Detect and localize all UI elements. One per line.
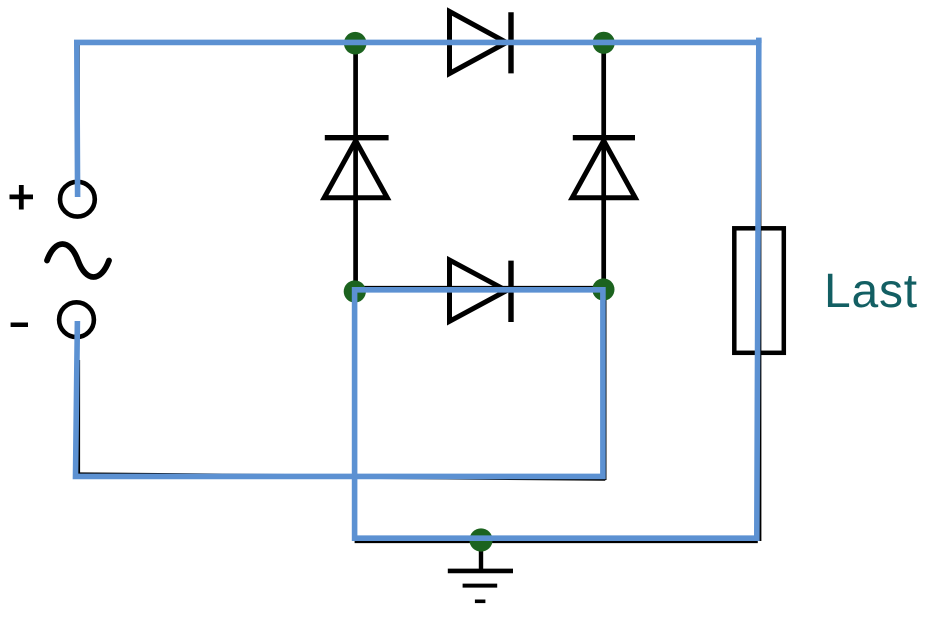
AC source: sine symbol xyxy=(47,244,109,277)
node B (top right junction) xyxy=(593,32,615,54)
node: ground junction xyxy=(469,528,492,551)
label: minus sign xyxy=(11,323,28,328)
wire: node C down to bottom rail xyxy=(353,291,357,541)
load resistor (Last) xyxy=(734,228,784,352)
wire: node C to node D (through bottom diode) xyxy=(354,286,604,290)
diode D4 (bottom, anode left) xyxy=(450,260,512,322)
node C (bottom left junction) xyxy=(344,280,366,302)
ground symbol xyxy=(448,540,513,601)
AC source: + terminal circle xyxy=(60,182,95,217)
wire: - terminal down xyxy=(77,360,80,477)
diode D2 (left vertical, cathode up) xyxy=(324,138,388,198)
wire: bottom rail (load bottom to node C column) xyxy=(355,539,758,543)
wire: blue stub at top-right corner xyxy=(756,38,762,43)
AC source: - terminal circle xyxy=(59,302,94,337)
diode D3 (right vertical, cathode up) xyxy=(572,138,635,198)
wire: right column through load (top rail to bottom rail) xyxy=(757,42,761,541)
wire: node A down through diode D2 to node C xyxy=(353,43,358,292)
wire: + terminal up to top rail xyxy=(76,42,80,197)
wire: blue highlighted current path loop xyxy=(76,42,759,538)
wire: lower return rail xyxy=(79,475,605,479)
diode D1 (top, anode left) xyxy=(450,12,512,74)
label: plus sign xyxy=(10,185,34,210)
svg-text:Last: Last xyxy=(824,265,918,318)
node A (top left junction) xyxy=(344,32,367,55)
wire: node B down through diode D3 to node D xyxy=(601,43,606,291)
black base circuit xyxy=(76,42,760,541)
wire: top rail from + to load top corner xyxy=(76,40,758,44)
node D (bottom right junction) xyxy=(592,278,614,300)
wire: return rail up to node D xyxy=(602,291,606,480)
